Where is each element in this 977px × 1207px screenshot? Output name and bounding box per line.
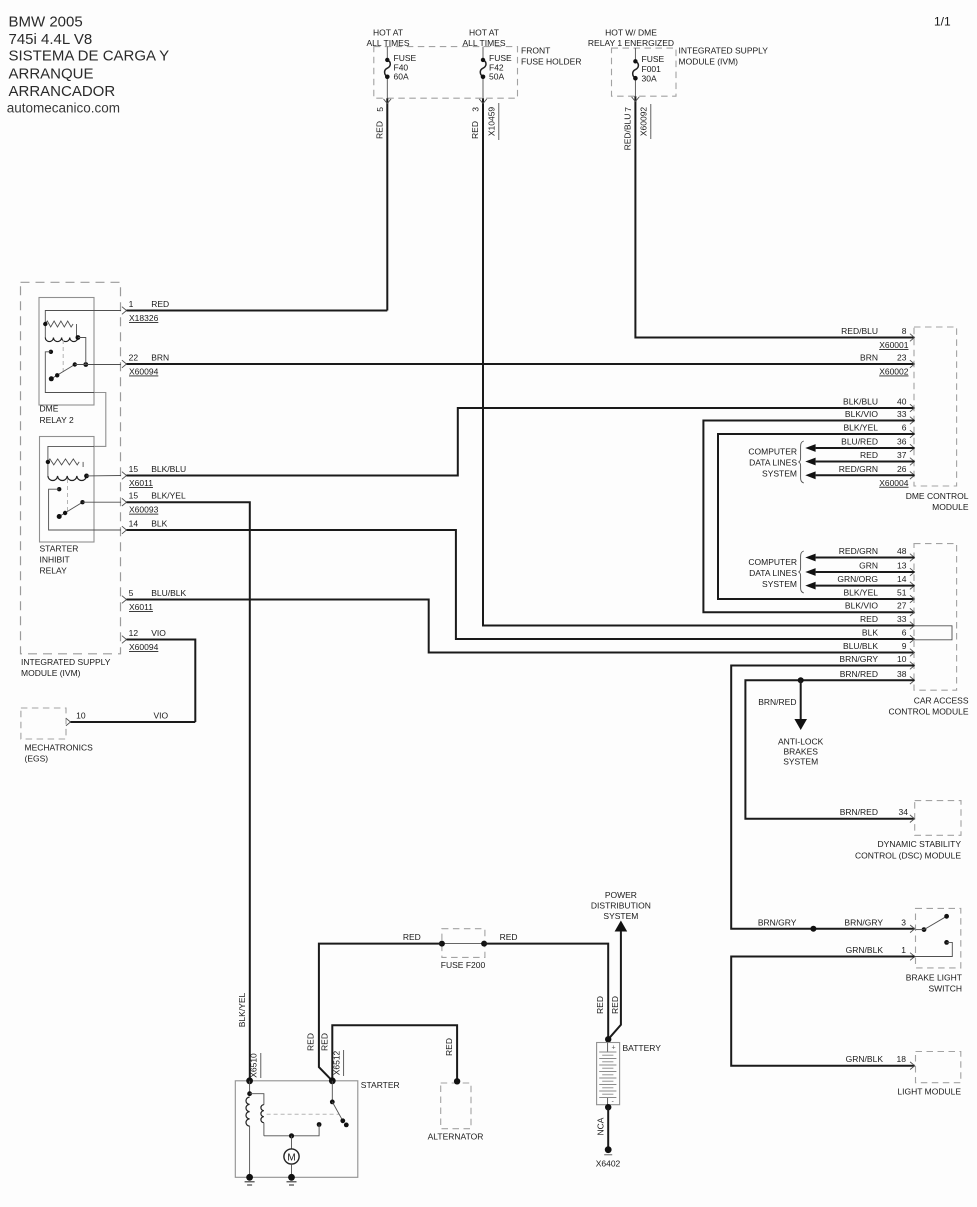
starter switch output contact — [317, 1122, 322, 1127]
svg-text:GRN/ORG: GRN/ORG — [837, 574, 878, 584]
svg-text:18: 18 — [897, 1054, 907, 1064]
fuse F42 — [482, 47, 484, 60]
starter inhibit relay: NC contact and wire to pin 14 — [57, 487, 61, 491]
node X6402 — [605, 1146, 612, 1153]
svg-text:48: 48 — [897, 546, 907, 556]
starter motor M — [291, 1136, 293, 1149]
svg-text:MODULE: MODULE — [932, 502, 969, 512]
wire BLK/YEL from IVM pin 15 down to starter X6510 — [122, 498, 127, 506]
svg-text:INTEGRATED SUPPLY: INTEGRATED SUPPLY — [21, 657, 111, 667]
wire VIO from IVM pin 12 down to EGS — [122, 636, 127, 644]
svg-text:RED/GRN: RED/GRN — [839, 464, 878, 474]
svg-text:RED: RED — [500, 932, 518, 942]
svg-text:BLK/YEL: BLK/YEL — [237, 992, 247, 1027]
svg-text:X60004: X60004 — [879, 478, 909, 488]
svg-text:40: 40 — [897, 397, 907, 407]
wire RED from fuse F40 down to IVM pin 1 row — [386, 98, 388, 310]
wire BLK from IVM pin 14 to CAR pin 6 — [122, 526, 127, 534]
svg-text:DME: DME — [40, 404, 59, 414]
svg-text:50A: 50A — [489, 72, 504, 82]
svg-text:STARTER: STARTER — [361, 1080, 400, 1090]
svg-text:22: 22 — [129, 353, 139, 363]
svg-text:COMPUTER: COMPUTER — [748, 447, 797, 457]
svg-text:RED: RED — [306, 1033, 316, 1051]
CAR pin 51 BLK/YEL row — [910, 595, 915, 603]
svg-text:STARTER: STARTER — [40, 544, 79, 554]
fuse F40 — [386, 47, 388, 60]
svg-text:RED: RED — [595, 996, 605, 1014]
battery box — [597, 1043, 620, 1105]
ground symbol 1 — [245, 1181, 255, 1183]
svg-text:DATA LINES: DATA LINES — [749, 568, 797, 578]
DME relay 2: coil feed wire to pin 1 — [45, 311, 121, 338]
svg-text:36: 36 — [897, 437, 907, 447]
svg-text:3: 3 — [471, 107, 481, 112]
CAR pin 9 BLU/BLK row — [910, 649, 915, 657]
svg-text:51: 51 — [897, 588, 907, 598]
wire RED/BLU from fuse F001 down to DME pin 8 row — [635, 96, 914, 337]
svg-text:DME CONTROL: DME CONTROL — [906, 491, 969, 501]
wire BRN/GRY down to brake light switch — [731, 666, 915, 929]
svg-text:FUSE HOLDER: FUSE HOLDER — [521, 57, 581, 67]
svg-text:27: 27 — [897, 601, 907, 611]
CAR pin 48 RED/GRN data line row — [910, 554, 915, 562]
svg-text:14: 14 — [897, 574, 907, 584]
svg-text:ANTI-LOCK: ANTI-LOCK — [778, 736, 824, 746]
svg-text:RED: RED — [320, 1033, 330, 1051]
wire RED from starter X6512 to alternator — [332, 1025, 457, 1081]
channel between relays — [94, 393, 106, 447]
node starter ground 2 (motor) — [288, 1174, 295, 1181]
mechatronics (EGS) dashed box — [21, 708, 66, 739]
svg-text:14: 14 — [129, 519, 139, 529]
DME pin 8 RED/BLU row (connector X60001) — [910, 334, 915, 342]
svg-text:automecanico.com: automecanico.com — [7, 100, 120, 115]
DME pin 36 BLU/RED data line row — [910, 444, 915, 452]
svg-text:BLU/RED: BLU/RED — [841, 437, 878, 447]
wire VIO from EGS pin 10 — [66, 718, 71, 726]
alternator dashed box — [441, 1083, 471, 1129]
svg-text:1: 1 — [129, 299, 134, 309]
brake light switch internals — [922, 927, 927, 932]
svg-text:INHIBIT: INHIBIT — [40, 555, 70, 565]
svg-text:X60002: X60002 — [879, 367, 909, 377]
svg-text:BRAKES: BRAKES — [783, 747, 818, 757]
svg-text:MODULE (IVM): MODULE (IVM) — [679, 57, 739, 67]
CAR pin 14 GRN/ORG data line row — [910, 582, 915, 590]
svg-text:DATA LINES: DATA LINES — [749, 458, 797, 468]
svg-text:SYSTEM: SYSTEM — [603, 911, 638, 921]
BLS pin 3 BRN/GRY row labels — [910, 925, 915, 933]
DME pin 40 BLK/BLU row — [910, 404, 915, 412]
svg-text:BRN/GRY: BRN/GRY — [758, 917, 797, 927]
node battery negative terminal — [605, 1104, 611, 1110]
node alternator B+ — [454, 1078, 460, 1084]
ground symbol 2 — [287, 1181, 297, 1183]
svg-text:RED: RED — [151, 299, 169, 309]
brake light switch dashed box — [916, 908, 961, 968]
svg-text:GRN/BLK: GRN/BLK — [846, 945, 884, 955]
IVM pin 1 RED row (connector X18326) — [122, 307, 127, 315]
svg-text:GRN: GRN — [859, 561, 878, 571]
front fuse holder box — [374, 47, 518, 99]
svg-text:8: 8 — [902, 326, 907, 336]
svg-text:1: 1 — [901, 945, 906, 955]
starter inhibit relay: coil output to pin 15 BLK/BLU — [87, 475, 122, 477]
svg-text:CAR ACCESS: CAR ACCESS — [914, 696, 969, 706]
wire BLK/YEL vertical link to CAR pin 51 — [718, 434, 915, 599]
svg-text:BLK/YEL: BLK/YEL — [151, 491, 186, 501]
svg-text:POWER: POWER — [605, 890, 637, 900]
svg-text:X6510: X6510 — [249, 1053, 259, 1078]
svg-text:X6011: X6011 — [129, 602, 153, 612]
svg-text:RED/GRN: RED/GRN — [839, 546, 878, 556]
svg-text:6: 6 — [902, 628, 907, 638]
fuse F200 dashed box — [442, 929, 485, 958]
starter inhibit relay: coil feed from channel — [48, 446, 94, 476]
svg-text:SWITCH: SWITCH — [928, 984, 962, 994]
DME pin 23 BRN row (connector X60002) — [910, 360, 915, 368]
DME relay 2: inductor coil — [45, 338, 78, 342]
svg-text:SYSTEM: SYSTEM — [783, 757, 818, 767]
IVM fuse box — [612, 48, 677, 96]
svg-text:+: + — [612, 1045, 616, 1052]
DME pin 26 RED/GRN data line row (connector X60004) — [910, 472, 915, 480]
svg-text:(EGS): (EGS) — [25, 754, 49, 764]
DME relay 2: resistor — [45, 321, 73, 327]
node BRN/RED junction — [798, 677, 804, 683]
wire GRN/BLK down to light module — [731, 957, 915, 1066]
svg-text:RELAY 2: RELAY 2 — [40, 415, 74, 425]
svg-text:RED: RED — [375, 121, 385, 139]
svg-text:GRN/BLK: GRN/BLK — [846, 1054, 884, 1064]
svg-text:23: 23 — [897, 353, 907, 363]
svg-text:BRN: BRN — [151, 353, 169, 363]
svg-text:3: 3 — [901, 917, 906, 927]
DME relay 2: actuator dashed line — [62, 340, 64, 372]
svg-text:34: 34 — [899, 807, 909, 817]
svg-text:M: M — [287, 1153, 295, 1164]
wire RED from starter feed to fuse F200 — [319, 944, 442, 1081]
svg-text:1/1: 1/1 — [934, 15, 951, 29]
svg-text:HOT AT: HOT AT — [373, 28, 403, 38]
svg-text:BLK/YEL: BLK/YEL — [844, 423, 879, 433]
starter solenoid coil 2 — [261, 1105, 264, 1123]
light module dashed box — [916, 1052, 961, 1083]
starter solenoid coil 2 feed — [250, 1094, 264, 1105]
svg-text:RED: RED — [470, 121, 480, 139]
DSC pin 34 BRN/RED row — [910, 815, 915, 823]
svg-text:SISTEMA DE CARGA Y: SISTEMA DE CARGA Y — [9, 48, 170, 65]
svg-text:6: 6 — [902, 423, 907, 433]
relay STARTER INHIBIT RELAY box — [40, 437, 95, 543]
svg-text:60A: 60A — [394, 72, 409, 82]
svg-text:X60094: X60094 — [129, 642, 159, 652]
svg-text:BLK: BLK — [151, 519, 167, 529]
arrow up to power distribution system — [615, 921, 628, 932]
svg-text:BLK/BLU: BLK/BLU — [843, 397, 878, 407]
svg-text:RELAY 1 ENERGIZED: RELAY 1 ENERGIZED — [588, 38, 674, 48]
svg-text:F001: F001 — [642, 64, 662, 74]
svg-text:RED: RED — [860, 450, 878, 460]
svg-text:RED: RED — [860, 614, 878, 624]
svg-text:BRAKE LIGHT: BRAKE LIGHT — [906, 973, 962, 983]
DME relay 2: contact to coil junction and pin 22 — [83, 362, 88, 367]
starter inhibit relay: resistor — [48, 459, 79, 465]
svg-text:13: 13 — [897, 561, 907, 571]
svg-text:7: 7 — [623, 107, 633, 112]
dynamic stability control (DSC) module dashed box — [915, 801, 961, 836]
svg-text:12: 12 — [129, 628, 139, 638]
wire BRN from IVM pin 22 to DME pin 23 — [122, 360, 127, 368]
svg-text:33: 33 — [897, 409, 907, 419]
svg-text:FUSE: FUSE — [394, 53, 417, 63]
LM pin 18 GRN/BLK row labels — [910, 1062, 915, 1070]
wire BRN/RED to DSC module — [745, 680, 914, 818]
svg-text:HOT W/ DME: HOT W/ DME — [605, 28, 657, 38]
node X6510 junction — [246, 1077, 253, 1084]
CAR pin 33 RED row — [910, 622, 915, 630]
svg-text:X60001: X60001 — [879, 340, 909, 350]
svg-text:BRN/RED: BRN/RED — [840, 669, 878, 679]
svg-text:X6512: X6512 — [331, 1050, 341, 1075]
DME pin 6 BLK/YEL row — [910, 430, 915, 438]
svg-text:15: 15 — [129, 491, 139, 501]
svg-text:BLK/YEL: BLK/YEL — [844, 588, 879, 598]
starter inhibit relay: actuator dashed line — [67, 479, 69, 512]
wire NCA battery ground — [607, 1107, 609, 1150]
svg-text:X6011: X6011 — [129, 478, 153, 488]
svg-text:FUSE: FUSE — [489, 53, 512, 63]
car access control module dashed box — [914, 544, 957, 691]
battery plates — [599, 1051, 616, 1053]
svg-text:33: 33 — [897, 614, 907, 624]
battery center stubs — [607, 1043, 609, 1053]
CAR pin 6 BLK row — [910, 635, 915, 643]
starter box — [235, 1081, 357, 1178]
svg-text:BRN/RED: BRN/RED — [758, 697, 796, 707]
svg-text:SYSTEM: SYSTEM — [762, 579, 797, 589]
svg-text:RED: RED — [610, 996, 620, 1014]
svg-text:RED/BLU: RED/BLU — [623, 114, 633, 151]
svg-text:BMW 2005: BMW 2005 — [9, 14, 83, 31]
svg-text:BRN/GRY: BRN/GRY — [844, 917, 883, 927]
svg-text:BLK/VIO: BLK/VIO — [845, 409, 878, 419]
svg-text:9: 9 — [902, 641, 907, 651]
svg-text:X18326: X18326 — [129, 313, 159, 323]
svg-text:FRONT: FRONT — [521, 46, 550, 56]
DME relay 2: switch arm — [51, 365, 75, 379]
starter switch — [331, 1081, 333, 1102]
starter solenoid feed — [249, 1081, 251, 1094]
DME control module dashed box — [914, 327, 957, 486]
svg-text:ALL TIMES: ALL TIMES — [463, 38, 506, 48]
svg-text:ARRANCADOR: ARRANCADOR — [9, 83, 116, 100]
BLS pin 1 GRN/BLK row — [910, 953, 915, 961]
svg-text:745i 4.4L V8: 745i 4.4L V8 — [9, 31, 93, 48]
svg-text:NCA: NCA — [596, 1117, 606, 1135]
CAR pin 27 BLK/VIO row — [910, 608, 915, 616]
svg-text:X6402: X6402 — [596, 1159, 621, 1169]
svg-text:X60092: X60092 — [639, 107, 649, 137]
svg-text:5: 5 — [129, 588, 134, 598]
svg-text:10: 10 — [76, 711, 86, 721]
svg-text:BRN: BRN — [860, 353, 878, 363]
svg-text:BRN/GRY: BRN/GRY — [839, 654, 878, 664]
svg-text:FUSE: FUSE — [642, 54, 665, 64]
svg-text:38: 38 — [897, 669, 907, 679]
svg-text:X60094: X60094 — [129, 367, 159, 377]
svg-text:10: 10 — [897, 654, 907, 664]
svg-text:DISTRIBUTION: DISTRIBUTION — [591, 901, 651, 911]
svg-text:VIO: VIO — [154, 711, 169, 721]
node solenoid/motor junction — [289, 1133, 294, 1138]
svg-text:RED: RED — [403, 932, 421, 942]
CAR pin 10 BRN/GRY row — [910, 662, 915, 670]
svg-text:BLU/BLK: BLU/BLK — [151, 588, 186, 598]
svg-text:SYSTEM: SYSTEM — [762, 469, 797, 479]
svg-text:BATTERY: BATTERY — [623, 1043, 662, 1053]
node battery positive terminal — [605, 1036, 611, 1042]
integrated supply module (IVM) dashed box — [21, 282, 121, 654]
svg-text:X60093: X60093 — [129, 505, 159, 515]
svg-text:HOT AT: HOT AT — [469, 28, 499, 38]
wire RED from fuse F42 down to RED 33 row — [483, 98, 915, 625]
node BRN/GRY junction — [810, 926, 816, 932]
wire BRN/RED arrow to anti-lock brakes system — [800, 680, 802, 719]
svg-text:BLU/BLK: BLU/BLK — [843, 641, 878, 651]
fuse F001 — [634, 48, 636, 61]
svg-text:RELAY: RELAY — [40, 566, 68, 576]
wire BLU/BLK from IVM pin 5 to CAR pin 9 — [122, 596, 127, 604]
fuse F200 element — [442, 943, 484, 945]
wire BLK/VIO vertical link to CAR pin 27 — [703, 421, 914, 613]
CAR pin 38 BRN/RED row — [910, 677, 915, 685]
node X6512 junction — [329, 1077, 336, 1084]
svg-text:COMPUTER: COMPUTER — [748, 557, 797, 567]
internal link rectangle pins 33-6 — [915, 626, 953, 640]
CAR pin 13 GRN data line row — [910, 568, 915, 576]
svg-text:ALTERNATOR: ALTERNATOR — [428, 1132, 484, 1142]
node starter ground 1 — [246, 1174, 253, 1181]
svg-text:LIGHT MODULE: LIGHT MODULE — [897, 1087, 961, 1097]
starter actuator dashed line — [267, 1113, 339, 1115]
svg-text:MECHATRONICS: MECHATRONICS — [25, 743, 94, 753]
wire BLK/BLU from IVM pin 15 to DME pin 40 — [122, 472, 127, 480]
svg-text:VIO: VIO — [151, 628, 166, 638]
svg-text:CONTROL MODULE: CONTROL MODULE — [889, 707, 969, 717]
svg-text:37: 37 — [897, 450, 907, 460]
starter inhibit relay: inductor coil — [48, 476, 87, 481]
svg-text:X10459: X10459 — [487, 107, 497, 137]
svg-text:ALL TIMES: ALL TIMES — [367, 38, 410, 48]
svg-text:30A: 30A — [642, 74, 657, 84]
svg-text:BLK/VIO: BLK/VIO — [845, 601, 878, 611]
DME pin 37 RED data line row — [910, 458, 915, 466]
svg-text:BLK: BLK — [862, 628, 878, 638]
svg-text:DYNAMIC STABILITY: DYNAMIC STABILITY — [878, 839, 962, 849]
relay DME RELAY 2 box — [39, 298, 94, 406]
starter solenoid coil 1 — [246, 1097, 250, 1126]
svg-text:BLK/BLU: BLK/BLU — [151, 464, 186, 474]
svg-text:RED: RED — [444, 1038, 454, 1056]
DME pin 33 BLK/VIO row — [910, 417, 915, 425]
brace (lower data lines) — [798, 551, 803, 593]
brace (upper data lines) — [798, 441, 803, 483]
svg-text:INTEGRATED SUPPLY: INTEGRATED SUPPLY — [679, 46, 769, 56]
svg-text:26: 26 — [897, 464, 907, 474]
svg-text:MODULE (IVM): MODULE (IVM) — [21, 668, 81, 678]
svg-text:15: 15 — [129, 464, 139, 474]
starter inhibit relay: switch arm to pin 15 BLK/YEL — [59, 502, 82, 516]
svg-text:5: 5 — [375, 107, 385, 112]
svg-text:ARRANQUE: ARRANQUE — [9, 66, 94, 83]
svg-text:CONTROL (DSC) MODULE: CONTROL (DSC) MODULE — [855, 851, 961, 861]
svg-text:RED/BLU: RED/BLU — [841, 326, 878, 336]
wire RED from fuse F200 to battery — [484, 944, 608, 1040]
svg-text:FUSE F200: FUSE F200 — [441, 960, 486, 970]
DME relay 2: NC contact and wire to channel — [49, 350, 53, 354]
svg-text:BRN/RED: BRN/RED — [840, 807, 878, 817]
